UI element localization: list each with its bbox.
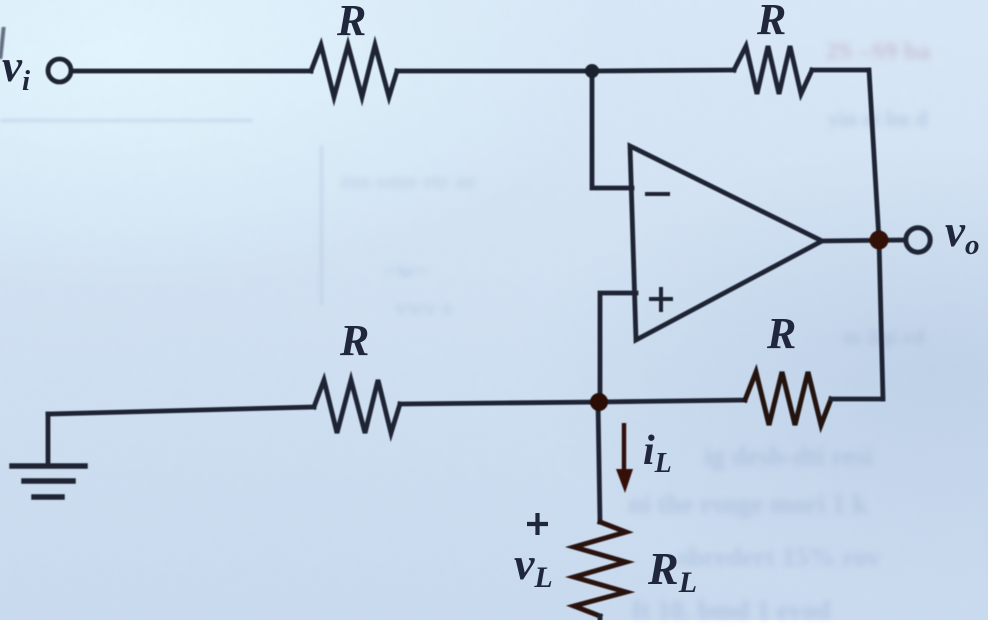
- resistor R2: [734, 46, 812, 94]
- plus sign load polarity: [527, 513, 548, 535]
- svg-text:vo: vo: [945, 206, 979, 261]
- svg-text:R: R: [339, 316, 369, 365]
- bleed-through squiggle blob center lower: [395, 295, 500, 322]
- ground: [12, 466, 85, 497]
- bleed-through text row 1 bottom-right: [704, 441, 988, 472]
- bleed-through text row 4 bottom-right: [632, 595, 988, 626]
- svg-text:iL: iL: [643, 428, 672, 479]
- page edge artifact top-left: [0, 27, 6, 59]
- wire node B down to RL: [598, 402, 600, 522]
- resistor R3: [314, 380, 400, 433]
- minus sign inverting input: [647, 192, 668, 196]
- resistor RL: [574, 522, 626, 616]
- wire node B to R4: [598, 400, 745, 402]
- svg-text:R: R: [336, 0, 366, 45]
- output node junction dot: [870, 231, 889, 250]
- resistor R1: [311, 45, 397, 97]
- node B junction dot: [590, 393, 608, 411]
- terminal vi open circle: [48, 59, 71, 82]
- wire R2 to right corner: [812, 68, 868, 73]
- wire non-inverting input step: [600, 293, 636, 402]
- bleed-through text row right middle: [843, 324, 988, 350]
- plus sign non-inverting input: [651, 289, 671, 310]
- wire R4 to right vertical: [831, 397, 882, 402]
- wire RL bottom tail: [598, 616, 603, 621]
- bleed-through text row top-right (pinkish): [826, 38, 988, 66]
- bleed-through squiggle blob center: [385, 258, 500, 285]
- wire vi to R1: [74, 69, 311, 74]
- wire right vertical: [869, 70, 883, 399]
- bleed-through text row right upper: [828, 106, 988, 132]
- resistor R4: [745, 372, 831, 425]
- terminal vo open circle: [906, 228, 930, 252]
- ground stem wire: [46, 414, 51, 466]
- bleed-through faint rule left: [0, 119, 253, 122]
- node A junction dot: [585, 64, 599, 78]
- bleed-through text row 2 bottom-right: [628, 489, 988, 520]
- wire ground to R3: [48, 407, 314, 414]
- wire node A down to inverting input: [592, 71, 632, 188]
- svg-text:RL: RL: [647, 543, 697, 599]
- wire op-amp output to vo: [820, 240, 905, 241]
- op-amp U1: [630, 146, 822, 340]
- bleed-through faint vertical rule center: [320, 145, 323, 305]
- svg-text:vL: vL: [514, 538, 553, 594]
- bleed-through text row 3 bottom-right: [678, 542, 988, 573]
- bleed-through smudge row upper middle: [340, 168, 600, 194]
- svg-text:vi: vi: [2, 41, 30, 97]
- wire R3 to node B: [400, 402, 598, 404]
- wire node A to R2: [592, 70, 734, 71]
- wire R1 to node A: [397, 69, 592, 74]
- svg-text:R: R: [766, 309, 796, 358]
- current arrow iL: [616, 423, 633, 493]
- svg-text:R: R: [756, 0, 786, 44]
